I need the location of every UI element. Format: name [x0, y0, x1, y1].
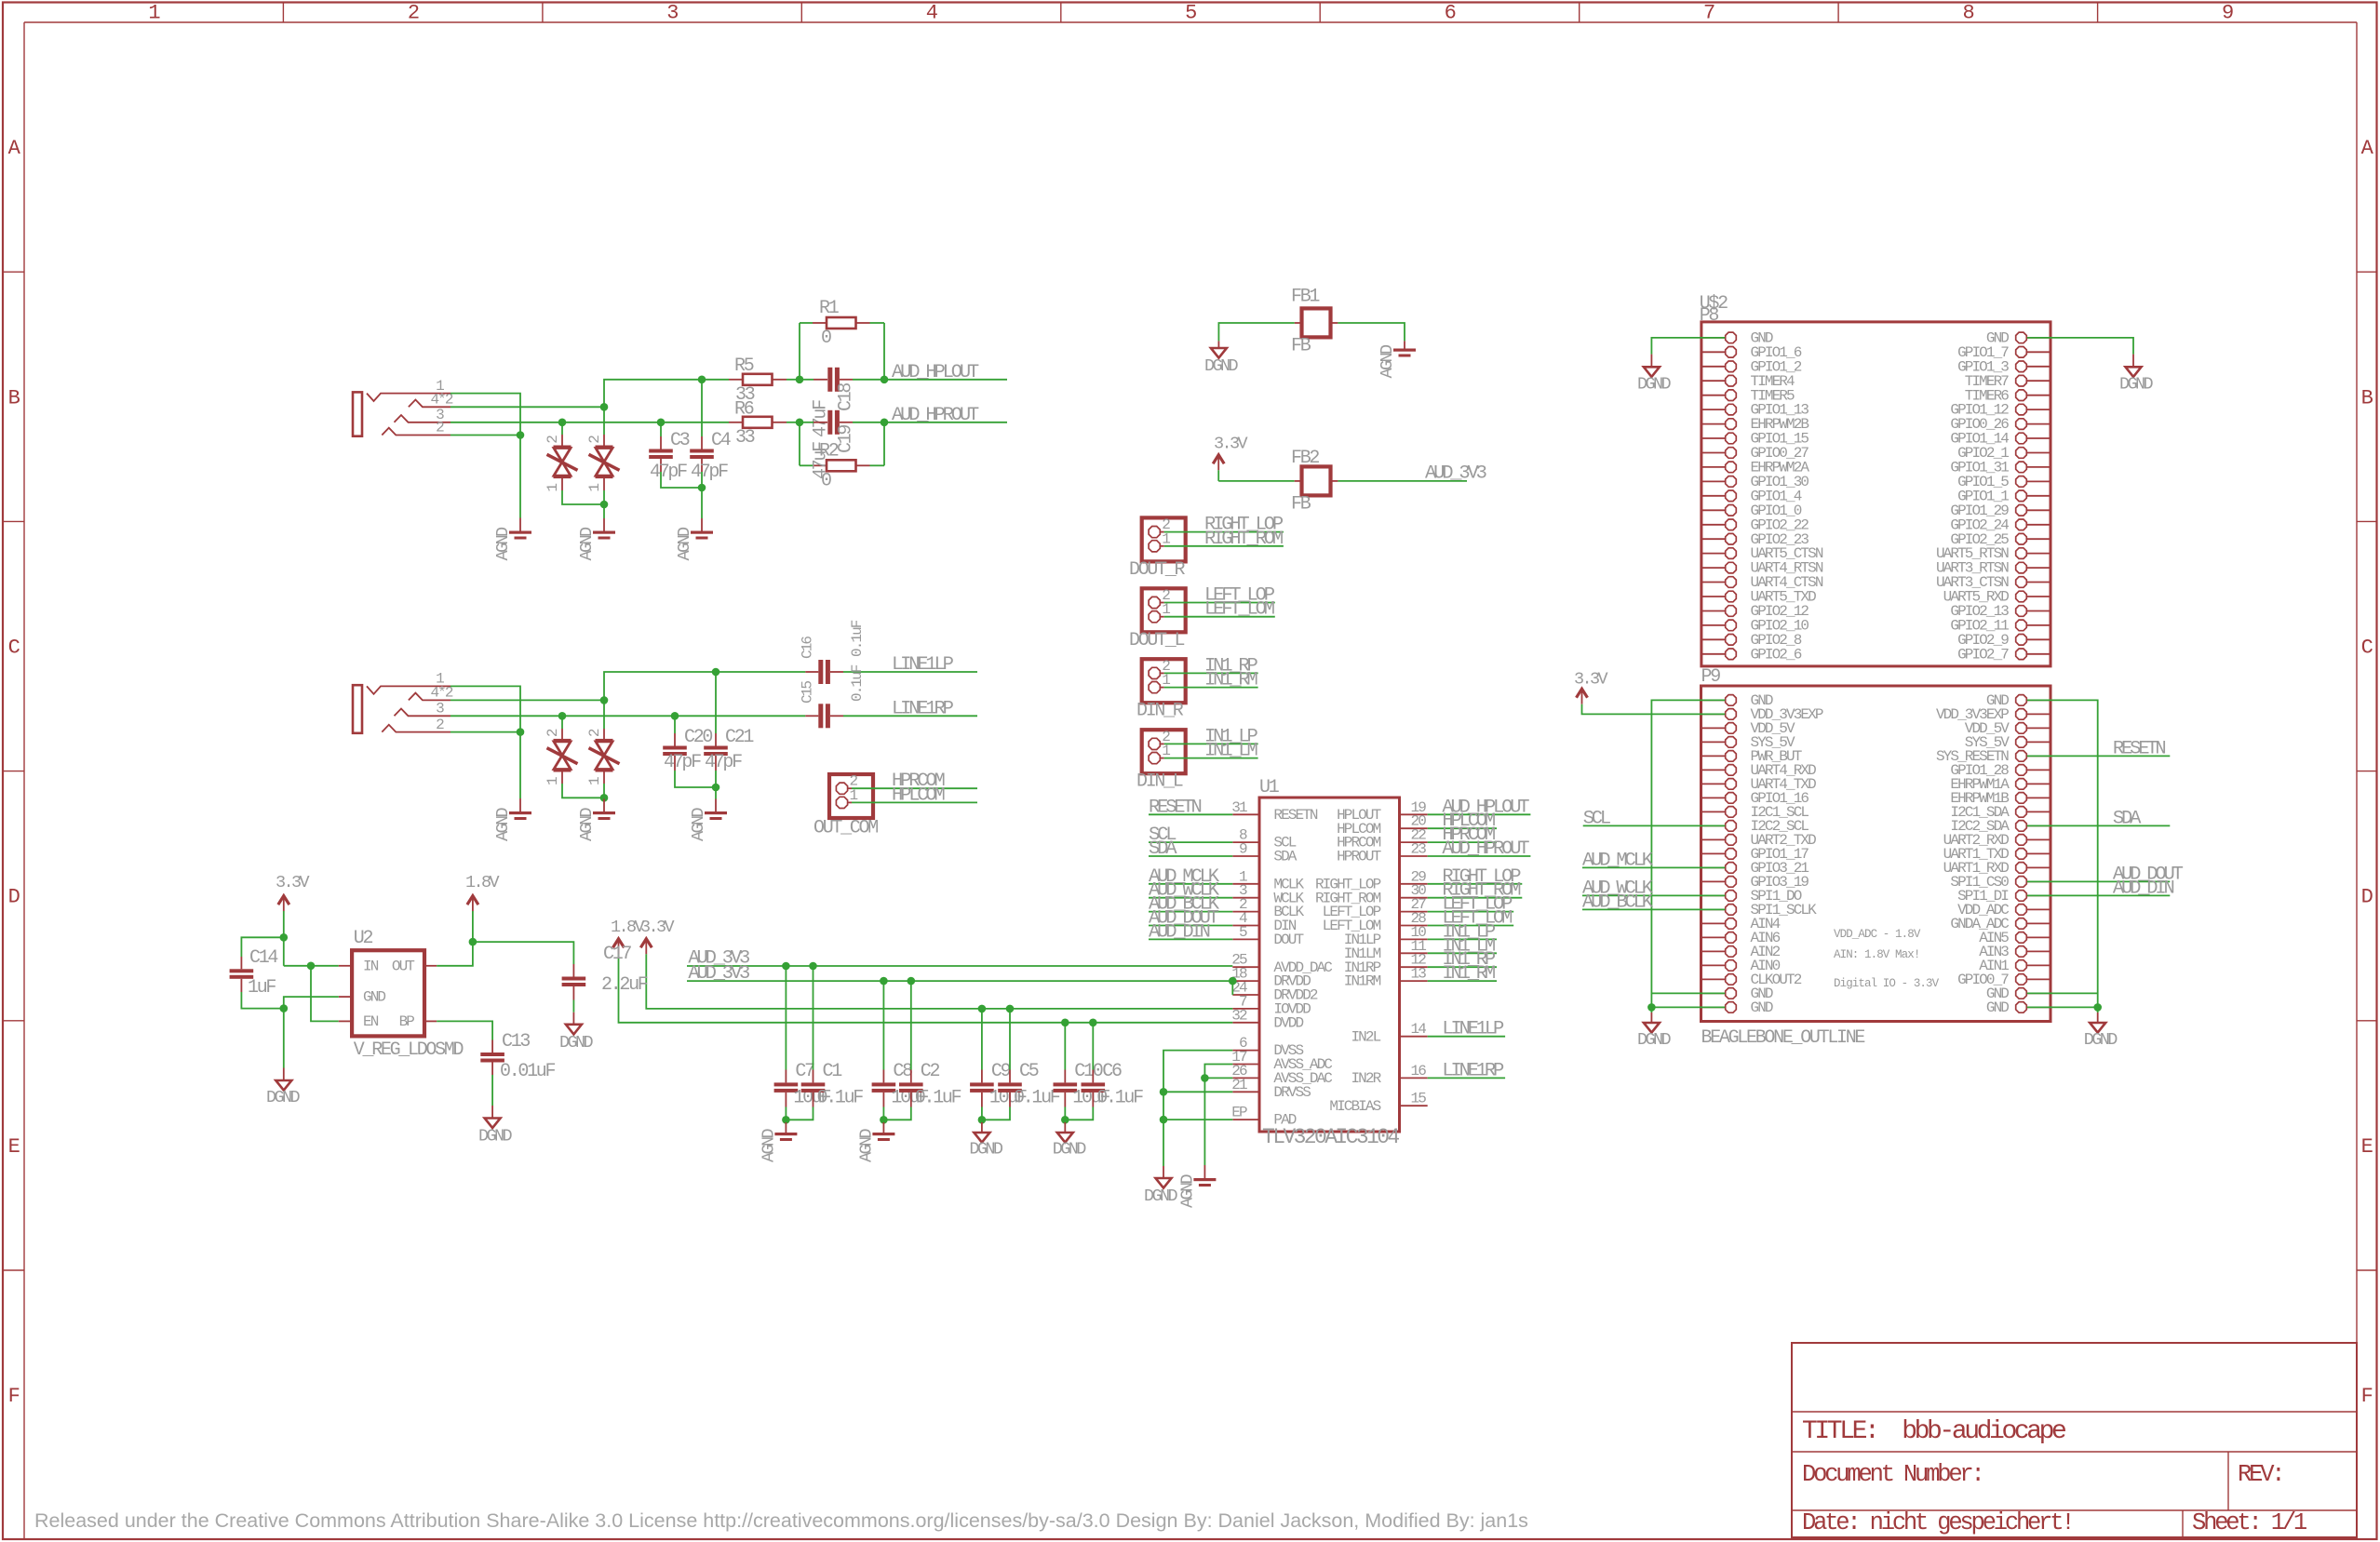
- wire PAD: [1163, 1119, 1232, 1120]
- svg-text:32: 32: [1231, 1007, 1247, 1024]
- svg-text:HPROUT: HPROUT: [1337, 849, 1381, 865]
- net label AUD_HPROUT: [884, 422, 1007, 423]
- wire net RESETN at U1: [1149, 813, 1232, 815]
- capacitor C2 0.1uF: [910, 981, 912, 1069]
- P9 pin right AIN5: [2027, 936, 2051, 938]
- P9 pin left GPIO3_19: [1701, 880, 1726, 882]
- P9 pin right SPI1_CS0: [2027, 880, 2051, 882]
- svg-text:AGND: AGND: [493, 527, 513, 561]
- U1 pin 29 RIGHT_LOP: [1400, 883, 1428, 885]
- svg-text:C21: C21: [725, 727, 754, 748]
- DGND FB1: [1211, 348, 1227, 358]
- wire TVS ground to AGND: [603, 504, 605, 518]
- U1 pin 6 DVSS: [1232, 1050, 1259, 1052]
- svg-text:21: 21: [1231, 1077, 1247, 1093]
- svg-text:1uF: 1uF: [248, 977, 276, 999]
- wire 3.3V down to IN: [283, 911, 285, 966]
- U1 pin 14 IN2L: [1400, 1036, 1428, 1038]
- svg-text:4*2: 4*2: [430, 685, 452, 702]
- P9 pin left GND: [1701, 699, 1726, 701]
- svg-text:BEAGLEBONE_OUTLINE: BEAGLEBONE_OUTLINE: [1701, 1027, 1865, 1049]
- AGND TVS: [593, 531, 615, 534]
- svg-text:47pF: 47pF: [650, 462, 687, 483]
- P8 pin right GND: [2027, 337, 2051, 339]
- svg-text:AGND: AGND: [577, 527, 597, 561]
- junction C5 on bus: [1006, 1005, 1015, 1013]
- junction pin1/pin2: [517, 431, 525, 439]
- wire net AUD_MCLK at U1: [1149, 883, 1232, 885]
- svg-text:0.1uF: 0.1uF: [915, 1088, 961, 1109]
- svg-text:LINE1LP: LINE1LP: [892, 654, 954, 676]
- svg-text:B: B: [8, 386, 20, 409]
- P8 pin left TIMER5: [1701, 395, 1725, 396]
- svg-text:1: 1: [1162, 743, 1170, 759]
- P9 pin right GPIO0_7: [2027, 978, 2051, 980]
- P9 pin left AIN4: [1701, 922, 1726, 924]
- resistor R5: [729, 379, 743, 381]
- svg-text:0.1uF: 0.1uF: [1014, 1088, 1060, 1109]
- wire net LEFT_LOM at U1: [1428, 925, 1514, 927]
- P8 pin right UART3_CTSN: [2027, 582, 2051, 583]
- svg-text:3: 3: [436, 701, 444, 717]
- junction C4 top on R5 row: [698, 376, 706, 384]
- junction C10/C6 ground: [1061, 1116, 1069, 1124]
- svg-text:OUT: OUT: [392, 958, 414, 974]
- U1 pin 26 AVSS_DAC: [1232, 1077, 1259, 1079]
- capacitor C14 1uF: [240, 957, 242, 969]
- junction PAD: [1160, 1116, 1168, 1124]
- svg-text:23: 23: [1411, 841, 1427, 858]
- P9 pin right VDD_3V3EXP: [2027, 713, 2051, 715]
- capacitor C6 0.1uF: [1092, 1023, 1094, 1070]
- U1 pin 12 IN1RP: [1400, 966, 1428, 968]
- svg-text:AGND: AGND: [689, 807, 708, 841]
- svg-text:DGND: DGND: [2119, 375, 2154, 395]
- svg-text:AUD_HPROUT: AUD_HPROUT: [1442, 838, 1529, 860]
- P8 pin right GPIO2_25: [2027, 538, 2051, 540]
- junction pin3 C3: [657, 419, 666, 427]
- U1 pin 28 LEFT_LOM: [1400, 925, 1428, 927]
- wire P9 GND row23 right: [2027, 1006, 2098, 1008]
- svg-text:A: A: [2361, 137, 2374, 160]
- svg-text:4: 4: [926, 2, 938, 25]
- svg-text:DOUT: DOUT: [1273, 932, 1303, 948]
- wire net RIGHT_ROM at U1: [1428, 897, 1523, 899]
- svg-text:DGND: DGND: [1637, 1030, 1672, 1050]
- svg-text:DIN_L: DIN_L: [1136, 771, 1183, 793]
- svg-text:FB: FB: [1291, 335, 1311, 356]
- svg-text:C8: C8: [893, 1061, 912, 1082]
- P9 pin right I2C1_SDA: [2027, 811, 2051, 812]
- junction pin3 TVS D3: [558, 712, 567, 720]
- P8 pin right GPIO1_31: [2027, 466, 2051, 468]
- svg-text:DGND: DGND: [559, 1033, 594, 1053]
- net label LINE1LP: [843, 671, 977, 673]
- junction R5 out: [796, 376, 804, 384]
- svg-text:AUD_HPROUT: AUD_HPROUT: [892, 405, 979, 426]
- svg-text:0: 0: [821, 328, 831, 349]
- svg-text:A: A: [8, 137, 21, 160]
- junction C9 on bus: [978, 1005, 987, 1013]
- P8 pin left GPIO0_27: [1701, 452, 1725, 454]
- P8 pin right GPIO1_14: [2027, 437, 2051, 439]
- svg-text:1: 1: [586, 484, 603, 492]
- P9 pin right GNDA_ADC: [2027, 922, 2051, 924]
- P8 pin left GPIO1_6: [1701, 351, 1725, 353]
- ground wire C7: [785, 1120, 787, 1122]
- junction C8/C2 ground: [880, 1116, 888, 1124]
- P8 pin left GPIO1_13: [1701, 409, 1725, 410]
- frame row ticks: [3, 271, 24, 273]
- wire net SDA at P9: [2027, 825, 2171, 826]
- P8 pin right GPIO2_9: [2027, 638, 2051, 640]
- wire net RESETN at P9: [2027, 755, 2171, 757]
- U1 pin 5 DOUT: [1232, 938, 1259, 940]
- svg-text:U2: U2: [354, 928, 373, 949]
- svg-text:C3: C3: [670, 430, 690, 451]
- P9 pin left UART4_TXD: [1701, 783, 1726, 784]
- wire jack 4*2 row: [450, 406, 604, 408]
- wire J2 pin3 row LINE1RP: [450, 715, 805, 717]
- junction C9/C5 ground: [978, 1116, 987, 1124]
- wire net AUD_BCLK at P9: [1582, 908, 1725, 910]
- TVS diode D1: [561, 422, 563, 435]
- P8 pin left EHRPWM2B: [1701, 423, 1725, 425]
- P9 pin left AIN2: [1701, 950, 1726, 952]
- svg-text:EN: EN: [363, 1013, 379, 1030]
- AGND J2: [509, 811, 531, 814]
- P9 pin right UART1_TXD: [2027, 852, 2051, 854]
- DGND C13: [485, 1119, 501, 1129]
- wire 4*2 up to R5 row: [604, 380, 729, 408]
- svg-text:BP: BP: [399, 1013, 415, 1030]
- U1 pin 31 RESETN: [1232, 813, 1259, 815]
- wire net LINE1LP at U1: [1428, 1036, 1505, 1038]
- wire net IN1_LM at U1: [1428, 952, 1497, 954]
- wire C ground to AGND: [701, 488, 703, 518]
- wire 4*2 up to LINE1LP row: [604, 672, 716, 700]
- svg-text:AUD_DIN: AUD_DIN: [2113, 878, 2174, 899]
- P8 pin right GPIO2_1: [2027, 452, 2051, 454]
- P8 pin left GPIO2_22: [1701, 524, 1725, 526]
- TVS diode D2: [603, 407, 605, 435]
- svg-text:C17: C17: [603, 944, 631, 965]
- P8 pin left GPIO1_30: [1701, 480, 1725, 482]
- U1 pin 10 IN1LP: [1400, 938, 1428, 940]
- P8 pin right GPIO2_7: [2027, 653, 2051, 655]
- wire IN1_LM: [1186, 758, 1258, 759]
- svg-text:EP: EP: [1231, 1105, 1247, 1121]
- wire net AUD_MCLK at P9: [1582, 866, 1725, 868]
- svg-text:1: 1: [1162, 530, 1170, 547]
- P9 pin left SYS_5V: [1701, 741, 1726, 743]
- svg-text:0.01uF: 0.01uF: [500, 1061, 556, 1082]
- resistor R6: [729, 422, 743, 423]
- svg-text:GND: GND: [363, 989, 385, 1006]
- net label AUD_HPLOUT: [884, 379, 1007, 381]
- P9 pin right GND: [2027, 699, 2051, 701]
- wire FB1 left to DGND: [1295, 322, 1302, 324]
- wire P8 GND right to DGND: [2027, 338, 2133, 355]
- AGND TVS J2: [593, 811, 615, 814]
- svg-text:Date: nicht gespeichert!: Date: nicht gespeichert!: [1802, 1509, 2072, 1536]
- ferrite bead FB1: [1302, 308, 1331, 337]
- svg-text:MICBIAS: MICBIAS: [1329, 1098, 1380, 1115]
- P9 pin right SPI1_DI: [2027, 894, 2051, 896]
- U1 pin 32 DVDD: [1232, 1022, 1259, 1024]
- wire net SCL at P9: [1583, 825, 1726, 826]
- svg-text:B: B: [2361, 386, 2373, 409]
- wire IN1_RP: [1186, 672, 1258, 674]
- svg-text:AGND: AGND: [1378, 344, 1397, 379]
- junction C19 out: [881, 419, 889, 427]
- svg-text:E: E: [2361, 1135, 2373, 1159]
- wire 3.3V to FB2: [1217, 470, 1219, 481]
- svg-text:Sheet: 1/1: Sheet: 1/1: [2192, 1509, 2307, 1536]
- svg-text:IN: IN: [363, 958, 379, 974]
- svg-text:0.1uF: 0.1uF: [849, 664, 866, 702]
- wire AVSS_DAC: [1204, 1077, 1232, 1079]
- svg-text:AGND: AGND: [856, 1128, 876, 1162]
- wire jack pin1 to ground node: [450, 394, 520, 518]
- P9 pin left VDD_3V3EXP: [1701, 713, 1726, 715]
- svg-text:Released under the Creative Co: Released under the Creative Commons Attr…: [34, 1509, 1528, 1532]
- U1 pin 20 HPLCOM: [1400, 827, 1428, 829]
- junction C10 on bus: [1061, 1019, 1069, 1027]
- P9 pin right VDD_5V: [2027, 727, 2051, 729]
- capacitor C21: [715, 672, 717, 733]
- U1 pin 7 IOVDD: [1232, 1008, 1259, 1010]
- AGND C7: [774, 1133, 797, 1135]
- svg-text:GPIO2_6: GPIO2_6: [1751, 646, 1802, 663]
- U1 pin 27 LEFT_LOP: [1400, 911, 1428, 913]
- svg-text:D: D: [8, 886, 20, 909]
- svg-text:3: 3: [666, 2, 678, 25]
- svg-text:RESETN: RESETN: [1149, 797, 1202, 818]
- P9 pin left GPIO1_16: [1701, 797, 1726, 798]
- U1 pin 16 IN2R: [1400, 1077, 1428, 1079]
- svg-text:47pF: 47pF: [705, 752, 742, 773]
- svg-text:8: 8: [1963, 2, 1974, 25]
- bus DRVDD AUD_3V3: [687, 980, 1232, 982]
- P9 pin left AIN6: [1701, 936, 1726, 938]
- title block outline: [1792, 1343, 2357, 1537]
- svg-text:1: 1: [586, 777, 603, 785]
- junction C21 top: [712, 668, 720, 677]
- svg-text:2: 2: [586, 729, 603, 737]
- P8 pin left GPIO1_2: [1701, 366, 1725, 368]
- wire to C17: [473, 942, 574, 964]
- AGND C20/C21: [705, 811, 727, 814]
- bus IOVDD 3.3V: [646, 954, 1232, 1009]
- svg-text:AGND: AGND: [675, 527, 694, 561]
- wire DGND rail U1: [1163, 1120, 1164, 1166]
- wire DRVSS: [1163, 1091, 1232, 1093]
- svg-text:3.3V: 3.3V: [276, 873, 310, 892]
- svg-text:AIN: 1.8V Max!: AIN: 1.8V Max!: [1834, 948, 1919, 961]
- TVS diode D4: [603, 700, 605, 729]
- junction C2 on bus: [908, 977, 916, 986]
- junction TVS ground: [600, 501, 609, 509]
- junction P9 left GND: [1647, 1003, 1656, 1012]
- P9 pin left GPIO3_21: [1701, 866, 1726, 868]
- line-in jack J2: [353, 685, 362, 733]
- svg-text:PAD: PAD: [1273, 1112, 1296, 1129]
- junction C8 on bus: [880, 977, 888, 986]
- wire net AUD_DOUT at P9: [2027, 880, 2171, 882]
- U1 pin 17 AVSS_ADC: [1232, 1064, 1259, 1066]
- capacitor C15: [805, 715, 818, 717]
- junction pin3 C20: [671, 712, 679, 720]
- DGND P9 right: [2097, 1007, 2099, 1012]
- headphone jack J1: [353, 392, 362, 436]
- wire jack pin2: [450, 435, 520, 436]
- DGND U1: [1156, 1178, 1172, 1188]
- svg-text:AGND: AGND: [493, 807, 513, 841]
- capacitor C9 10uF: [981, 1009, 983, 1070]
- wire J2 pin2: [450, 731, 520, 733]
- junction C1 on bus: [809, 962, 817, 971]
- P8 pin right UART5_RTSN: [2027, 553, 2051, 555]
- connector DOUT_L: [1142, 588, 1186, 632]
- capacitor C4: [701, 380, 703, 436]
- U1 pin 4 DIN: [1232, 925, 1259, 927]
- svg-text:47uF: 47uF: [811, 442, 832, 479]
- capacitor C1 0.1uF: [813, 966, 814, 1070]
- svg-text:LINE1RP: LINE1RP: [1442, 1060, 1504, 1081]
- voltage regulator U2 V_REG_LDOSMD: [352, 950, 424, 1036]
- title block REV divider: [2227, 1452, 2229, 1510]
- wire OUT to 1.8V: [424, 965, 437, 967]
- junction C14 top branch: [280, 933, 289, 942]
- svg-text:DGND: DGND: [969, 1140, 1003, 1160]
- wire net RIGHT_LOP at U1: [1428, 883, 1523, 885]
- svg-text:5: 5: [1239, 924, 1247, 941]
- svg-text:IN2L: IN2L: [1351, 1028, 1380, 1045]
- P9 pin left I2C1_SCL: [1701, 811, 1726, 812]
- capacitor C17 2.2uF: [572, 964, 574, 977]
- P9 pin left CLKOUT2: [1701, 978, 1726, 980]
- svg-text:C6: C6: [1102, 1061, 1122, 1082]
- wire jack pin3 row to R6: [450, 422, 729, 423]
- P9 pin left AIN0: [1701, 964, 1726, 966]
- U1 pin 25 AVDD_DAC: [1232, 966, 1259, 968]
- wire net IN1_LP at U1: [1428, 938, 1497, 940]
- P8 pin left TIMER4: [1701, 380, 1725, 382]
- svg-text:DGND: DGND: [1204, 356, 1239, 376]
- P8 pin left GPIO1_4: [1701, 495, 1725, 497]
- P8 pin right GPIO1_3: [2027, 366, 2051, 368]
- svg-text:FB2: FB2: [1291, 448, 1319, 469]
- svg-text:2: 2: [545, 436, 561, 444]
- svg-text:DOUT_L: DOUT_L: [1129, 630, 1185, 651]
- DGND C9: [974, 1133, 989, 1143]
- svg-text:4*2: 4*2: [430, 392, 452, 409]
- wire FB2 right AUD_3V3: [1331, 480, 1338, 482]
- wire P9 GND row22 right: [2027, 992, 2098, 994]
- wire to AGND C21: [715, 787, 717, 799]
- P9 pin left VDD_5V: [1701, 727, 1726, 729]
- svg-text:C18: C18: [836, 383, 857, 411]
- svg-text:33: 33: [735, 427, 755, 449]
- junction DRVDD2 branch: [1229, 977, 1237, 986]
- wire net AUD_DIN at P9: [2027, 894, 2171, 896]
- svg-text:RIGHT_ROM: RIGHT_ROM: [1204, 529, 1283, 550]
- P8 pin right GPIO1_5: [2027, 480, 2051, 482]
- junction C14 bottom: [280, 1004, 289, 1012]
- P8 pin left GPIO2_10: [1701, 624, 1725, 626]
- P8 pin right GPIO1_12: [2027, 409, 2051, 410]
- svg-text:47pF: 47pF: [691, 462, 728, 483]
- P8 pin right GPIO2_24: [2027, 524, 2051, 526]
- U1 pin 3 WCLK: [1232, 897, 1259, 899]
- wire IN row: [284, 965, 311, 967]
- wire P9 GND right rail: [2027, 700, 2098, 1007]
- P9 pin right SYS_RESETN: [2027, 755, 2051, 757]
- ground wire C9: [981, 1120, 983, 1122]
- P9 pin right SYS_5V: [2027, 741, 2051, 743]
- svg-text:DGND: DGND: [478, 1127, 513, 1146]
- wire RIGHT_ROM: [1186, 545, 1284, 547]
- svg-text:2: 2: [586, 436, 603, 444]
- capacitor C20: [674, 716, 676, 733]
- ground stub J2: [519, 798, 521, 811]
- svg-text:0.1uF: 0.1uF: [1096, 1088, 1143, 1109]
- header P9 outline: [1701, 686, 2051, 1022]
- P9 pin left UART4_RXD: [1701, 769, 1726, 771]
- connector DIN_R: [1142, 659, 1186, 703]
- svg-text:P9: P9: [1701, 666, 1721, 688]
- wire LEFT_LOM: [1186, 616, 1275, 618]
- wire to AGND TVS J2: [603, 798, 605, 798]
- svg-text:1: 1: [545, 484, 561, 492]
- P9 pin left UART2_TXD: [1701, 838, 1726, 840]
- P9 pin right EHRPWM1A: [2027, 783, 2051, 784]
- P8 pin left UART4_CTSN: [1701, 582, 1725, 583]
- connector DIN_L: [1142, 730, 1186, 773]
- svg-text:DGND: DGND: [1144, 1187, 1178, 1206]
- junction P9 right GND: [2093, 1003, 2102, 1012]
- svg-text:C5: C5: [1019, 1061, 1039, 1082]
- P8 pin right UART3_RTSN: [2027, 567, 2051, 569]
- wire net AUD_HPROUT at U1: [1428, 855, 1531, 857]
- U1 pin 21 DRVSS: [1232, 1091, 1259, 1093]
- connector OUT_COM: [829, 774, 873, 818]
- U1 pin 30 RIGHT_ROM: [1400, 897, 1428, 899]
- svg-text:Digital IO - 3.3V: Digital IO - 3.3V: [1834, 977, 1940, 990]
- svg-text:C19: C19: [836, 425, 857, 453]
- svg-text:1: 1: [850, 787, 858, 804]
- wire P9 GND row23 left: [1651, 1006, 1725, 1008]
- P8 pin right TIMER7: [2027, 380, 2051, 382]
- DGND C10: [1057, 1133, 1073, 1143]
- P9 pin right UART2_RXD: [2027, 838, 2051, 840]
- P9 pin left GND: [1701, 1006, 1726, 1008]
- U1 pin EP PAD: [1232, 1119, 1259, 1120]
- wire DRVDD2 branch: [1231, 981, 1233, 995]
- svg-text:AUD_BCLK: AUD_BCLK: [1582, 892, 1654, 913]
- P8 pin left GPIO1_15: [1701, 437, 1725, 439]
- P8 pin right GPIO0_26: [2027, 423, 2051, 425]
- U1 pin 2 BCLK: [1232, 911, 1259, 913]
- svg-text:9: 9: [1239, 841, 1247, 858]
- svg-text:SDA: SDA: [2113, 808, 2142, 829]
- svg-text:DVDD: DVDD: [1273, 1014, 1303, 1031]
- U1 pin 11 IN1LM: [1400, 952, 1428, 954]
- svg-text:FB: FB: [1291, 493, 1311, 515]
- U1 pin 15 MICBIAS: [1400, 1105, 1428, 1106]
- wire net HPLCOM at U1: [1428, 827, 1497, 829]
